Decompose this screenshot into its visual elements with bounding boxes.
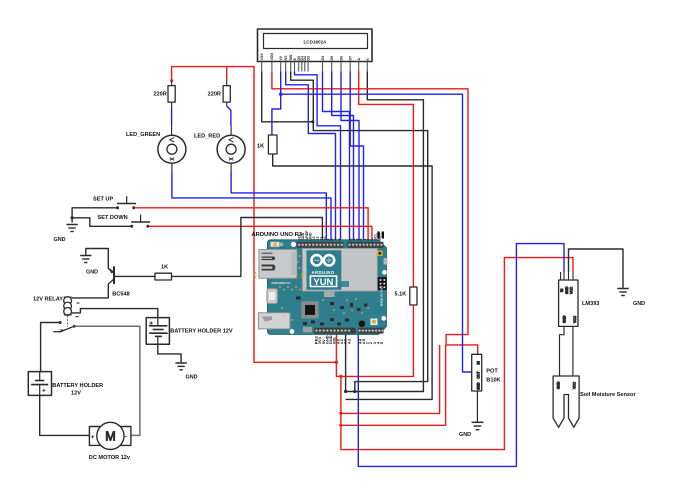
top header group B: [348, 242, 384, 248]
Arduino top-right bold pin marks: [377, 232, 379, 239]
junction red pot feeds: [339, 412, 342, 415]
ICSP header: [378, 277, 387, 290]
svg-text:6: 6: [337, 239, 341, 241]
ground POT GND: [459, 422, 483, 438]
bottom header group A: [314, 328, 356, 334]
bottom header group B: [358, 328, 384, 334]
svg-text:SET DOWN: SET DOWN: [98, 215, 128, 221]
board PCB: [267, 240, 386, 335]
Arduino header sockets bottom A: [315, 329, 351, 332]
wire black 1K bottom to Arduino: [273, 154, 432, 399]
wire blue LED_RED to Arduino D pin: [231, 171, 326, 240]
svg-text:220R: 220R: [208, 92, 221, 98]
svg-text:ARDUINO UNO R3: ARDUINO UNO R3: [252, 232, 303, 238]
svg-text:GND: GND: [565, 286, 569, 294]
ATmega chip: [301, 301, 318, 318]
wire blue V0 node: [281, 72, 472, 373]
svg-text:GND: GND: [86, 270, 98, 276]
svg-text:D7: D7: [349, 56, 353, 61]
wire red branch pot feed B: [341, 345, 446, 425]
svg-text:12V RELAY: 12V RELAY: [33, 296, 63, 302]
junction black buttons GND: [71, 216, 74, 219]
wire black transistor collector to relay: [72, 284, 109, 298]
svg-text:LM393: LM393: [582, 301, 599, 307]
LCD U2 LCD1602A: [258, 29, 373, 62]
Arduino header sockets bottom B: [358, 329, 384, 332]
svg-text:LCD1602A: LCD1602A: [304, 40, 328, 45]
svg-text:RS: RS: [284, 55, 288, 61]
relay K1 12V RELAY coil: [33, 296, 80, 316]
junction red 5V node: [335, 361, 338, 364]
LCD pin labels: [260, 53, 370, 61]
wire black Arduino GND pin: [345, 335, 347, 392]
wire black SET DOWN to GND: [72, 218, 132, 227]
svg-text:POT: POT: [486, 368, 498, 374]
wire blue LCD E to Arduino: [295, 72, 341, 241]
wire black relay coil bottom to battery holder: [72, 309, 158, 318]
ground buttons GND: [54, 225, 78, 244]
svg-text:LED_RED: LED_RED: [194, 134, 220, 140]
arduino infinity logo: [312, 255, 335, 265]
RF module shield: [302, 249, 377, 292]
wire blue 220R1 to LED_GREEN: [171, 108, 173, 126]
svg-text:GND: GND: [633, 301, 645, 307]
wire red branch pot feed A: [341, 345, 440, 414]
svg-text:+: +: [91, 434, 95, 441]
wire black SET UP to GND: [72, 208, 117, 223]
wire black LM393 to sensor right: [572, 326, 574, 376]
wire red LCD A to 5.1K: [359, 72, 414, 288]
Arduino gold vias: [279, 252, 369, 321]
svg-text:SET UP: SET UP: [93, 196, 113, 202]
wire black 1K to Arduino top pin: [172, 218, 323, 277]
svg-text:Soil Moisture Sensor: Soil Moisture Sensor: [580, 392, 636, 398]
resistor R2 220R: [208, 81, 231, 106]
svg-text:GND: GND: [54, 237, 66, 243]
svg-text:DC MOTOR 12v: DC MOTOR 12v: [89, 455, 131, 461]
svg-text:VCC: VCC: [573, 315, 577, 323]
svg-text:12V: 12V: [71, 390, 81, 396]
motor M1 DC MOTOR 12v: [89, 422, 131, 461]
battery BT1 BATTERY HOLDER 12V left: [28, 372, 103, 397]
wire blue LCD D7 to Arduino: [350, 72, 363, 241]
svg-text:BC548: BC548: [112, 292, 129, 298]
ethernet jack: [259, 250, 297, 279]
wire red 220R supply: [172, 67, 337, 363]
wire red branch to 220R R2: [226, 67, 228, 81]
wire grey switch NO to motor: [74, 326, 140, 435]
wire black POT to GND: [476, 391, 478, 422]
wire red 5.1K to 5V node: [341, 305, 414, 376]
wire blue Arduino A0 to LM393: [358, 244, 564, 467]
pushbutton S1 SET UP: [93, 196, 136, 209]
svg-text:SDA: SDA: [377, 232, 381, 240]
svg-text:ARDUINO: ARDUINO: [311, 270, 334, 275]
transistor Q1 BC548: [108, 266, 155, 297]
svg-text:GND: GND: [459, 432, 471, 438]
svg-text:V0: V0: [279, 56, 283, 60]
ground LM393 GND: [617, 289, 645, 308]
svg-text:B10K: B10K: [486, 378, 500, 384]
wire blue LCD D5 to Arduino: [332, 72, 354, 241]
svg-text:LED_GREEN: LED_GREEN: [126, 132, 160, 138]
ground transistor GND: [80, 256, 98, 276]
potentiometer POT B10K: [472, 354, 501, 391]
wire red SET UP to Arduino: [135, 208, 369, 240]
LED LED_RED: [194, 126, 245, 172]
wire black LM393 to sensor left: [560, 326, 565, 376]
junction red dot 220R top: [170, 79, 173, 82]
resistor R3 1K vertical: [257, 135, 277, 154]
Arduino header sockets top A: [298, 243, 344, 246]
svg-text:M: M: [105, 429, 115, 443]
wire blue LCD RS to Arduino: [286, 72, 336, 241]
wire black VSS to RW-node: [262, 72, 313, 122]
svg-text:+: +: [42, 388, 46, 395]
svg-text:GND: GND: [186, 374, 198, 380]
svg-text:VCC: VCC: [573, 381, 577, 389]
svg-text:-: -: [125, 433, 127, 440]
pushbutton S2 SET DOWN: [98, 215, 151, 228]
svg-text:BATTERY HOLDER 12V: BATTERY HOLDER 12V: [170, 328, 233, 334]
svg-text:D5: D5: [330, 56, 334, 61]
relay switch SPDT: [53, 316, 76, 333]
wire black LM393 to GND right: [569, 249, 624, 289]
svg-text:GND: GND: [476, 382, 480, 390]
svg-text:OUT: OUT: [476, 372, 480, 379]
svg-text:MADE IN ITALY: MADE IN ITALY: [380, 286, 384, 306]
wire blue LCD D6 to Arduino: [341, 72, 359, 241]
LED LED_GREEN: [126, 126, 186, 172]
svg-text:D4: D4: [321, 56, 325, 61]
svg-text:K: K: [366, 58, 370, 61]
wire red VDD to POT IN: [272, 72, 478, 355]
svg-text:A3: A3: [346, 338, 351, 344]
usb A: [258, 313, 290, 329]
svg-text:VSS: VSS: [260, 53, 264, 61]
svg-text:GND: GND: [557, 381, 561, 389]
svg-text:D6: D6: [340, 56, 344, 61]
junction blue V0: [279, 93, 282, 96]
svg-text:BATTERY HOLDER: BATTERY HOLDER: [52, 383, 103, 389]
wire black GND to transistor emitter: [86, 249, 109, 269]
resistor R4 5.1K: [395, 287, 418, 305]
Arduino U1 ARDUINO UNO R3 (Yun board): [252, 232, 388, 335]
wire blue 220R2 to LED_RED: [227, 106, 231, 126]
svg-text:VDD: VDD: [270, 53, 274, 61]
svg-text:VCC: VCC: [570, 286, 574, 294]
wire black battery2 to GND: [158, 344, 181, 363]
wire red SET DOWN to Arduino: [149, 226, 372, 240]
top header group A: [297, 242, 344, 248]
battery BT2 BATTERY HOLDER 12V right: [146, 318, 233, 345]
svg-text:A: A: [357, 58, 361, 61]
wire black RW GND chain: [291, 72, 428, 392]
junction black GND node 1: [344, 390, 347, 393]
Arduino top pin labels: [298, 230, 382, 241]
misc board bits: [271, 242, 280, 247]
resistor R5 1K horizontal: [155, 264, 172, 280]
wire blue LED_GREEN to Arduino D pin: [172, 171, 331, 240]
LCD pin stubs: [262, 62, 368, 72]
svg-text:GND: GND: [563, 315, 567, 323]
Arduino bottom pin labels: [314, 335, 385, 344]
wire blue LCD D4 to Arduino: [323, 72, 350, 241]
junction black VSS/RW: [311, 120, 314, 123]
svg-text:5.1K: 5.1K: [395, 292, 407, 298]
resistor R1 220R: [153, 81, 175, 108]
wire black battery to motor: [40, 395, 90, 435]
micro usb: [267, 289, 278, 304]
svg-text:1K: 1K: [257, 144, 264, 150]
junction red 5V jog: [339, 375, 342, 378]
junction black GND node 2: [353, 390, 356, 393]
Arduino small SMD components: [296, 297, 368, 326]
Arduino header sockets top B: [348, 243, 383, 246]
ground battery GND: [175, 363, 197, 380]
svg-text:220R: 220R: [153, 92, 166, 98]
wire blue V0 to 1K: [272, 94, 281, 135]
svg-text:D3: D3: [307, 56, 311, 61]
svg-text:ARDUINO.CC: ARDUINO.CC: [271, 281, 291, 285]
sensor Soil Moisture Sensor: [553, 376, 636, 427]
wire black switch common feed: [41, 323, 61, 372]
comparator U3 LM393: [559, 272, 600, 326]
svg-text:1K: 1K: [161, 264, 168, 270]
wire black K to Arduino GND: [346, 72, 424, 392]
wire red Arduino 5V bottom pin: [336, 258, 573, 450]
